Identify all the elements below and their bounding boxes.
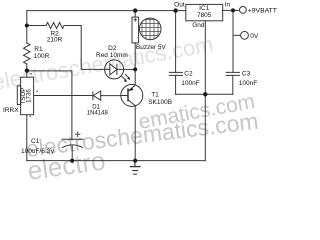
IC1 in pin wire xyxy=(223,9,240,11)
diode D1 cathode bar xyxy=(92,92,94,100)
led D2 cathode bar xyxy=(116,64,118,74)
junction node In pin xyxy=(231,8,235,12)
wire bottom rail xyxy=(27,160,206,162)
junction node R1 bottom xyxy=(25,68,29,72)
buzzer body circle with grid xyxy=(139,18,161,40)
capacitor C1 bottom wire xyxy=(71,145,73,160)
svg-text:In: In xyxy=(225,2,231,9)
buzzer BZ1 plus mark xyxy=(134,18,137,21)
IRRX module TSOP1736 box xyxy=(21,77,34,115)
wire gnd row xyxy=(176,93,233,95)
svg-text:Red 10mm: Red 10mm xyxy=(96,52,128,59)
junction node LED buzzer collector xyxy=(133,67,137,71)
capacitor C2 plates xyxy=(169,72,182,75)
svg-text:Gnd: Gnd xyxy=(192,22,205,29)
junction node C1 bottom xyxy=(70,159,74,163)
IC1 gnd pin xyxy=(204,21,206,95)
wire R2 branch left xyxy=(27,25,46,27)
svg-text:T1: T1 xyxy=(151,92,159,99)
junction node R2 branch xyxy=(25,24,29,28)
capacitor C2 bottom wire xyxy=(175,75,177,94)
wire In rail down xyxy=(232,10,234,72)
led D2 circle xyxy=(105,60,124,79)
terminal 0V circle xyxy=(241,31,249,39)
wire D1 to T1 base xyxy=(101,95,121,97)
led D2 internal leads xyxy=(105,68,124,70)
wire R1 to TSOP xyxy=(26,64,28,77)
svg-text:C1: C1 xyxy=(31,138,40,145)
led D2 triangle xyxy=(110,64,117,75)
wire LED to node xyxy=(124,68,136,70)
led D2 light arrows xyxy=(122,74,131,82)
transistor T1 emitter wire down xyxy=(134,106,136,161)
svg-text:100nF: 100nF xyxy=(181,80,199,87)
wire top rail xyxy=(27,10,186,12)
svg-text:100uF/6.3V: 100uF/6.3V xyxy=(21,148,55,155)
ground symbol xyxy=(130,161,140,175)
wire left rail upper xyxy=(26,11,28,43)
transistor T1 circle xyxy=(121,84,143,106)
transistor T1 emitter diagonal (PNP arrow) xyxy=(128,85,135,91)
junction node gnd xyxy=(203,92,207,96)
transistor T1 base lead xyxy=(121,95,128,97)
buzzer BZ1 rectangle xyxy=(132,17,139,43)
IRRX bottom pin and left bottom rail xyxy=(26,115,28,161)
junction node emitter bottom xyxy=(133,159,137,163)
svg-text:0V: 0V xyxy=(250,33,259,40)
svg-text:7805: 7805 xyxy=(197,12,212,19)
svg-text:210R: 210R xyxy=(47,36,63,43)
svg-text:+9VBATT: +9VBATT xyxy=(248,7,277,14)
svg-text:Out: Out xyxy=(174,2,185,9)
wire 0V tap xyxy=(233,34,241,36)
wire C1 branch from R1 node xyxy=(27,71,72,139)
svg-text:C3: C3 xyxy=(242,71,251,78)
svg-text:Buzzer 5V: Buzzer 5V xyxy=(136,44,167,51)
svg-text:1N4148: 1N4148 xyxy=(87,110,109,116)
transistor T1 collector diagonal xyxy=(128,100,135,106)
wire R2 right and down to LED row xyxy=(64,26,105,70)
terminal +9VBATT circle xyxy=(240,6,247,13)
capacitor C1 top plate xyxy=(62,138,83,140)
buzzer BZ1 bottom wire xyxy=(134,43,136,70)
diode D1 triangle xyxy=(93,91,101,100)
transistor T1 base bar xyxy=(127,89,129,101)
capacitor C3 bottom wire xyxy=(232,75,234,94)
svg-text:1736: 1736 xyxy=(26,89,33,103)
transistor T1 collector-node wire xyxy=(134,69,136,85)
IRRX pin marks xyxy=(30,73,31,74)
junction node buzzer top xyxy=(133,8,137,12)
svg-text:C2: C2 xyxy=(184,71,193,78)
svg-text:IC1: IC1 xyxy=(199,5,210,12)
wire TSOP out to D1 xyxy=(34,95,93,97)
transistor T1 emitter arrowhead xyxy=(129,88,134,91)
capacitor C1 curved plate xyxy=(62,145,82,148)
svg-text:SK100B: SK100B xyxy=(148,99,172,106)
resistor R1 xyxy=(24,43,31,64)
regulator IC1 7805 box xyxy=(186,4,223,20)
buzzer BZ1 top wire xyxy=(134,11,136,18)
IRRX module lens bump xyxy=(17,86,20,105)
wire gnd down right xyxy=(204,94,206,160)
junction node C2 top xyxy=(173,8,177,12)
capacitor C2 top wire xyxy=(175,11,177,73)
resistor R2 xyxy=(46,23,64,29)
svg-text:100nF: 100nF xyxy=(239,80,257,87)
capacitor C1 plus sign xyxy=(75,132,80,137)
capacitor C3 plates xyxy=(226,72,239,75)
svg-text:100R: 100R xyxy=(34,53,50,60)
svg-text:IRRX: IRRX xyxy=(3,107,19,114)
